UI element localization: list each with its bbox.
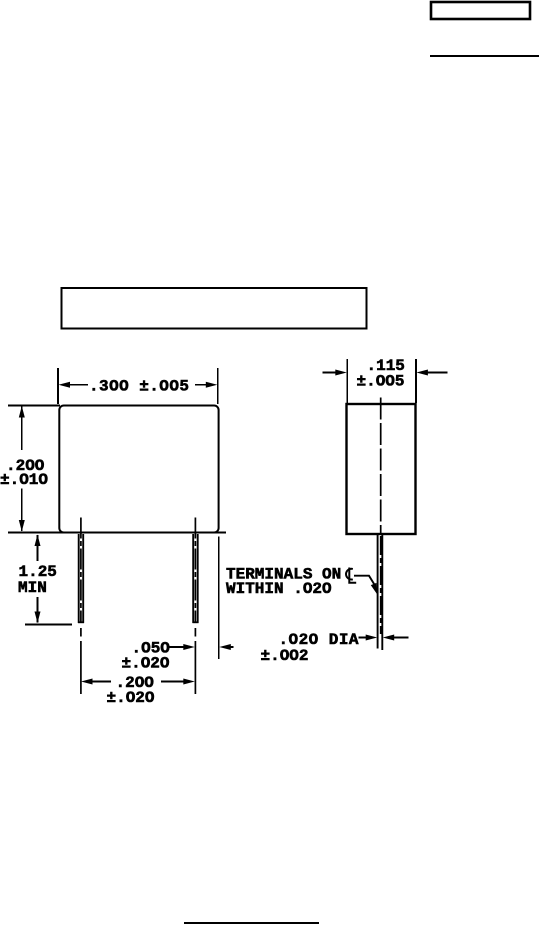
.050 dim left-pointing arrow at body edge extension with tail [219, 644, 231, 650]
svg-text:WITHIN .O2O: WITHIN .O2O [226, 580, 332, 598]
.200 lead spacing dim right arrow [161, 681, 185, 683]
.200 lead spacing dim left arrow [81, 679, 93, 685]
svg-text:.3OO ±.OO5: .3OO ±.OO5 [89, 377, 189, 395]
side view body outline [347, 404, 416, 534]
left lead bottom cap [78, 621, 84, 623]
centerline symbol ℄ [346, 568, 356, 583]
height dim down arrow [19, 520, 25, 532]
dim line .300 left arrow [59, 382, 71, 388]
thickness dim extension line right [415, 359, 417, 403]
svg-text:±.OO2: ±.OO2 [261, 647, 309, 665]
front body top edge extension (left) [8, 405, 60, 407]
right lead outline left [192, 534, 194, 623]
thickness dim extension line left [346, 359, 348, 403]
title block box [62, 288, 367, 329]
left lead centerline [80, 518, 82, 695]
.050 dim line and right-pointing arrow at lead centerline [169, 646, 185, 648]
front body bottom edge extension (left and right) [8, 532, 226, 534]
side lead outline left [377, 534, 379, 649]
.115 dim right outside arrow [416, 370, 428, 376]
svg-text:±.O1O: ±.O1O [0, 471, 48, 489]
left lead outline left [78, 534, 80, 623]
leader line from centerline symbol to lead [354, 576, 375, 586]
.020 DIA dim left arrow with tail [359, 637, 369, 639]
width dim extension line left [57, 368, 59, 404]
height dim up arrow [19, 406, 25, 418]
front view body outline [59, 406, 218, 533]
left lead outline right [82, 534, 84, 623]
side lead outline right [381, 534, 383, 650]
1.25 MIN lower line [37, 597, 39, 623]
.115 dim left outside arrow [323, 372, 338, 374]
right lead bottom cap [193, 621, 199, 623]
right lead outline right [197, 534, 199, 623]
height dim line upper (left side) [21, 407, 23, 451]
header underline [430, 55, 539, 57]
footer line [184, 922, 319, 924]
svg-text:MIN: MIN [18, 579, 47, 597]
dim line .300 right arrow [206, 382, 218, 388]
svg-text:±.O2O: ±.O2O [122, 655, 170, 673]
svg-text:±.OO5: ±.OO5 [357, 373, 405, 391]
leader arrowhead [371, 583, 378, 595]
side view centerline [380, 398, 382, 635]
height dim line lower [21, 489, 23, 532]
svg-text:±.O2O: ±.O2O [107, 689, 155, 707]
width dim extension line right [217, 368, 219, 404]
lead bottom reference line [25, 624, 72, 626]
1.25 MIN up arrow [35, 535, 41, 547]
lead length dim 1.25 MIN upper line [37, 535, 39, 561]
1.25 MIN down arrow [35, 612, 41, 624]
header revision box [431, 2, 530, 19]
right lead centerline [194, 518, 196, 695]
body right edge extension line down [218, 537, 220, 660]
.020 DIA dim right arrow with tail [383, 635, 395, 641]
